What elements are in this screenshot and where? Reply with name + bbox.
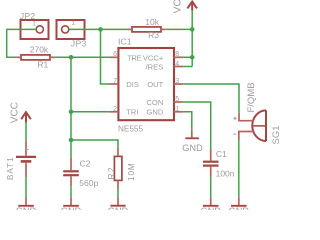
- ground symbol under BAT1: [18, 197, 34, 206]
- wire BAT1 top: [25, 123, 27, 142]
- svg-text:/RES: /RES: [146, 62, 164, 71]
- svg-text:TRI: TRI: [126, 108, 138, 117]
- wire C2 to ground: [70, 186, 72, 197]
- svg-text:C2: C2: [80, 159, 91, 169]
- IC1 pin 7 DIS stub: [109, 83, 118, 85]
- wire OUT to speaker: [183, 84, 239, 113]
- C1 bottom lead: [210, 167, 212, 177]
- wire CON to C1: [183, 102, 210, 149]
- svg-text:R3: R3: [148, 30, 159, 40]
- svg-text:TRE: TRE: [127, 53, 141, 62]
- junction at R3/VCC node: [190, 27, 195, 32]
- C1 top lead: [210, 149, 212, 161]
- C2 top lead: [70, 157, 72, 170]
- svg-text:DIS: DIS: [126, 80, 139, 89]
- R1 right lead: [50, 56, 55, 58]
- IC1 pin 3 OUT stub: [174, 83, 184, 85]
- junction at C2/R2 node: [69, 138, 74, 143]
- wire JP2 to R1 (left bracket): [7, 29, 37, 57]
- svg-text:560p: 560p: [79, 178, 98, 188]
- wire middle vertical: [70, 57, 72, 140]
- svg-text:VCC: VCC: [173, 0, 184, 13]
- wire to R2: [71, 140, 118, 147]
- svg-text:10M: 10M: [127, 162, 136, 181]
- svg-text:BAT1: BAT1: [6, 156, 15, 180]
- ground symbol under C1: [203, 197, 219, 206]
- resistor R2: [114, 156, 122, 180]
- svg-text:GND: GND: [61, 206, 82, 210]
- wire JP3 down to DIS: [101, 29, 110, 84]
- SG1 plus mark: [233, 117, 237, 121]
- svg-text:F/QMB: F/QMB: [246, 82, 257, 112]
- svg-text:10k: 10k: [145, 17, 159, 27]
- wire R1 to TRE: [55, 56, 109, 58]
- svg-text:C1: C1: [216, 149, 227, 159]
- svg-text:GND: GND: [229, 206, 250, 210]
- ground symbol near IC pin 1: [185, 130, 199, 139]
- capacitor C1: [203, 162, 219, 166]
- resistor R3: [132, 27, 161, 32]
- svg-text:GND: GND: [182, 143, 203, 153]
- junction at JP3/R3 node: [98, 27, 103, 32]
- svg-text:7: 7: [113, 78, 117, 85]
- ground symbol under R2: [110, 197, 125, 205]
- svg-text:JP2: JP2: [20, 11, 36, 21]
- svg-text:5: 5: [175, 96, 179, 103]
- wire pin1 to ground: [183, 112, 192, 130]
- vcc symbol left: [21, 112, 31, 122]
- capacitor C2: [63, 171, 79, 175]
- wire R2 to ground: [117, 190, 119, 198]
- IC1 pin 2 TRI stub: [109, 111, 118, 113]
- wire C2 top: [70, 140, 72, 157]
- svg-text:GND: GND: [108, 206, 129, 210]
- wire JP3 to R3: [69, 28, 128, 30]
- resistor R1: [21, 55, 50, 60]
- svg-text:R1: R1: [37, 60, 48, 70]
- svg-text:OUT: OUT: [147, 80, 163, 89]
- ground symbol under C2: [63, 197, 79, 206]
- wire BAT1 to ground: [25, 177, 27, 197]
- connector JP3: [57, 20, 85, 39]
- R1 left lead: [16, 56, 21, 58]
- svg-text:VCC: VCC: [9, 102, 20, 123]
- junction at R1/TRE node: [69, 55, 74, 60]
- svg-text:GND: GND: [200, 206, 221, 210]
- SG1 minus lead: [239, 132, 254, 141]
- connector JP2: [21, 20, 49, 39]
- svg-text:GND: GND: [16, 206, 37, 210]
- svg-text:SG1: SG1: [271, 125, 280, 144]
- C2 bottom lead: [70, 176, 72, 186]
- svg-text:4: 4: [175, 61, 179, 68]
- battery BAT1: [16, 141, 36, 177]
- junction at TRI node: [69, 110, 74, 115]
- svg-text:NE555: NE555: [118, 124, 143, 133]
- svg-text:JP3: JP3: [71, 39, 87, 49]
- svg-text:2: 2: [113, 106, 117, 113]
- IC1 pin 6 TRE stub: [109, 56, 118, 58]
- svg-text:270k: 270k: [30, 45, 49, 55]
- R3 left lead: [128, 28, 132, 30]
- R2 top lead: [117, 147, 119, 156]
- wire pin4 to VCC: [183, 66, 192, 68]
- svg-text:GND: GND: [146, 108, 163, 117]
- BAT1 plus mark: [25, 147, 29, 151]
- vcc symbol right: [187, 2, 197, 11]
- IC1 pin 4 /RES stub: [174, 66, 184, 68]
- R2 bottom lead: [117, 180, 119, 189]
- svg-text:1: 1: [175, 106, 179, 113]
- ic IC1 NE555 body: [118, 48, 174, 120]
- SG1 plus lead: [239, 113, 254, 121]
- svg-text:8: 8: [175, 51, 179, 58]
- wire to TRI: [71, 111, 109, 113]
- wire VCC vertical: [191, 11, 193, 67]
- IC1 pin 1 GND stub: [174, 111, 184, 113]
- svg-text:R2: R2: [106, 166, 116, 180]
- svg-text:IC1: IC1: [118, 36, 132, 46]
- svg-text:CON: CON: [146, 98, 163, 107]
- R3 right lead: [161, 28, 166, 30]
- wire C1 to ground: [210, 177, 212, 198]
- svg-text:VCC+: VCC+: [143, 53, 164, 62]
- wire pin8 to VCC: [183, 56, 192, 58]
- SG1 minus mark: [233, 133, 236, 135]
- IC1 pin 8 VCC+ stub: [174, 56, 184, 58]
- ground symbol under SG1: [231, 197, 247, 206]
- svg-text:3: 3: [175, 78, 179, 85]
- speaker SG1 body: [252, 110, 266, 141]
- svg-text:100n: 100n: [216, 169, 235, 179]
- wire speaker to ground: [238, 140, 240, 197]
- IC1 pin 5 CON stub: [174, 101, 184, 103]
- wire R3 to VCC: [165, 28, 192, 30]
- svg-text:6: 6: [113, 51, 117, 58]
- junction at pin8/VCC node: [190, 55, 195, 60]
